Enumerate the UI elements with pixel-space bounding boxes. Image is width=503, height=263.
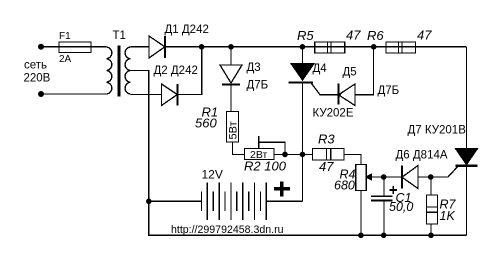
diode D1 (Д242): [149, 36, 165, 58]
battery 12V: [149, 183, 303, 220]
resistor R1 (5Вт): [227, 112, 239, 143]
wire: secondary bottom tap to D2: [130, 94, 161, 96]
wire: D6 to R7 node: [418, 176, 448, 178]
node: junction at D1/D2: [199, 44, 205, 50]
resistor R2 (2Вт) with tap: [245, 149, 275, 160]
svg-text:560: 560: [195, 116, 217, 131]
svg-text:Д7 КУ201В: Д7 КУ201В: [408, 125, 467, 137]
wire: top rail: [165, 46, 467, 48]
svg-text:КУ202Е: КУ202Е: [313, 108, 354, 120]
svg-text:Д1 Д242: Д1 Д242: [165, 24, 209, 36]
wire: middle rail R3 to R4: [344, 154, 361, 164]
svg-text:5Вт: 5Вт: [228, 121, 240, 139]
node: junction D4 cathode / battery plus: [300, 152, 306, 158]
wire: D7 gate: [431, 166, 459, 177]
wire: D2 cathode up to top rail: [177, 47, 201, 95]
wire: D5 anode up to R6 left: [355, 47, 374, 95]
svg-text:680: 680: [334, 179, 355, 193]
wire: D3 branch down: [230, 47, 232, 65]
transformer T1 core: [118, 46, 121, 97]
svg-text:Д7Б: Д7Б: [247, 80, 269, 92]
svg-text:Д6 Д814А: Д6 Д814А: [396, 150, 448, 162]
svg-text:сеть: сеть: [24, 60, 47, 72]
svg-text:R3: R3: [318, 132, 335, 147]
node: mains terminal bottom: [38, 91, 44, 97]
transformer T1 primary winding: [107, 47, 112, 94]
svg-text:50,0: 50,0: [389, 200, 413, 214]
label сеть 220В: [24, 60, 51, 85]
svg-text:47: 47: [346, 28, 361, 43]
diode D6 (Д814А): [402, 166, 418, 189]
svg-text:http://299792458.3dn.ru: http://299792458.3dn.ru: [171, 224, 284, 236]
wire: secondary center tap: [130, 71, 148, 202]
svg-text:Д2 Д242: Д2 Д242: [154, 65, 198, 77]
wire: D3 to R1: [230, 84, 232, 111]
svg-text:Д3: Д3: [247, 62, 261, 74]
wire: middle rail R2 to R3: [274, 153, 313, 155]
svg-text:F1: F1: [59, 31, 71, 42]
wire: bottom rail: [149, 201, 467, 235]
node: junction R7 bottom: [428, 233, 434, 239]
resistor R6: [386, 42, 416, 53]
wire: R2 wiper tap: [259, 136, 285, 154]
svg-text:1K: 1K: [440, 209, 456, 223]
wire: bottom terminal to transformer primary: [41, 93, 107, 95]
svg-text:47: 47: [417, 28, 432, 43]
svg-text:12V: 12V: [202, 168, 223, 182]
svg-text:220В: 220В: [24, 73, 51, 85]
wire: fuse to transformer primary: [91, 46, 107, 48]
svg-text:47: 47: [319, 159, 334, 174]
node: mains terminal top: [38, 44, 44, 50]
svg-text:R6: R6: [367, 28, 384, 43]
wire: secondary top tap to D1: [130, 46, 149, 48]
svg-text:R5: R5: [297, 28, 314, 43]
wire: R4 wiper with arrow: [366, 174, 402, 180]
svg-text:Д5: Д5: [343, 67, 357, 79]
wire: R1 to R2: [233, 142, 245, 154]
svg-text:2A: 2A: [59, 54, 72, 65]
wire: top terminal to fuse: [41, 46, 59, 48]
node: junction C1 bottom: [381, 233, 387, 239]
resistor R4 (680) potentiometer: [356, 165, 366, 236]
fuse F1: [59, 42, 91, 53]
node: junction battery minus: [146, 199, 152, 205]
node: junction R6 left: [371, 44, 377, 50]
diode D3 (Д7Б): [220, 65, 242, 84]
node: junction R4 bottom: [358, 233, 364, 239]
diode D2 (Д242): [162, 84, 178, 106]
svg-text:Д7Б: Д7Б: [378, 85, 400, 97]
label plus for C1: [390, 186, 398, 194]
node: junction R2 tap: [282, 152, 288, 158]
wire: D4 gate diagonal to D5: [312, 84, 339, 95]
label plus for battery: [274, 182, 290, 197]
thyristor D7 (КУ201В): [456, 149, 478, 236]
thyristor D4 (КУ202Е): [289, 47, 315, 155]
wire: battery plus riser: [302, 154, 304, 201]
node: junction wiper / C1: [381, 174, 387, 180]
node: junction D6 / R7 / gate: [428, 174, 434, 180]
diode D5 (Д7Б): [337, 84, 355, 106]
resistor R7 (1K): [427, 177, 438, 235]
node: junction R5 left: [300, 44, 306, 50]
resistor R3: [313, 149, 345, 161]
resistor R5: [315, 42, 345, 53]
transformer T1 secondary winding: [125, 47, 130, 94]
wire: right rail down from top: [466, 47, 468, 149]
svg-text:R2 100: R2 100: [244, 159, 287, 174]
node: junction D3 branch: [228, 44, 234, 50]
capacitor C1 (50,0) electrolytic: [371, 177, 393, 235]
svg-text:Д4: Д4: [313, 63, 328, 75]
svg-text:T1: T1: [113, 30, 126, 42]
